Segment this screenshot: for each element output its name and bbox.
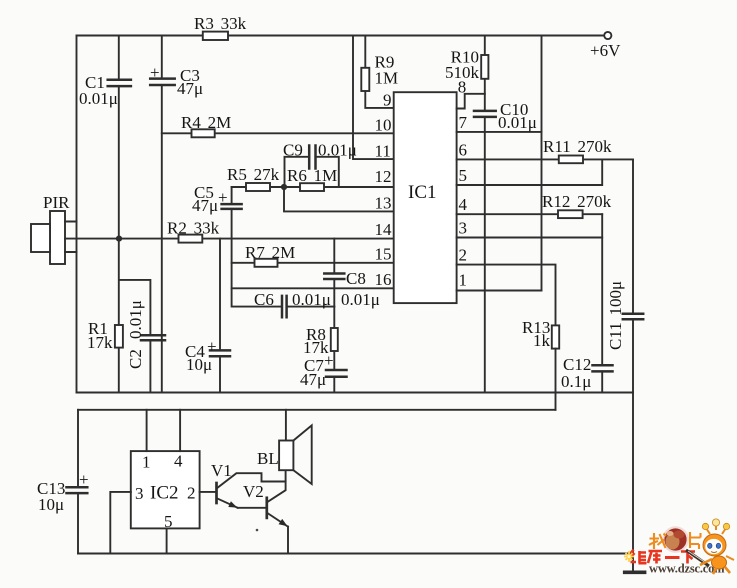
svg-text:BL: BL	[257, 449, 279, 468]
svg-text:2: 2	[459, 246, 468, 265]
wire C10 to bottom rail	[484, 117, 486, 393]
resistor R3	[203, 32, 228, 40]
svg-text:+: +	[218, 188, 228, 207]
resistor R1	[115, 325, 123, 348]
wire IC2 pin 4	[179, 410, 181, 451]
svg-text:C8: C8	[346, 269, 366, 288]
svg-text:R12 270k: R12 270k	[542, 192, 612, 211]
svg-text:R11 270k: R11 270k	[543, 137, 612, 156]
IC IC1	[394, 92, 457, 303]
svg-text:+: +	[79, 470, 89, 489]
svg-text:R6 1M: R6 1M	[287, 166, 337, 185]
wire R10 supply	[484, 36, 486, 111]
capacitor C6	[282, 296, 287, 317]
svg-text:1M: 1M	[375, 69, 399, 88]
capacitor C10	[474, 111, 496, 117]
svg-text:0.01μ: 0.01μ	[79, 89, 118, 108]
capacitor C11	[623, 314, 643, 320]
capacitor C2	[141, 335, 165, 340]
resistor R11	[559, 156, 583, 164]
svg-text:+6V: +6V	[590, 41, 621, 60]
capacitor C12	[593, 365, 613, 371]
wire IC2 pin 1	[146, 410, 148, 451]
svg-text:14: 14	[375, 220, 393, 239]
transistor V2	[267, 470, 288, 553]
wire R12 to C12	[601, 214, 603, 365]
wire C8 branch	[333, 239, 335, 307]
svg-text:47μ: 47μ	[300, 370, 326, 389]
wire pin 16	[232, 287, 394, 289]
wire C3 branch	[161, 36, 163, 393]
wire upper bottom rail	[77, 392, 634, 394]
node junction R5 R6 C9	[281, 184, 287, 190]
wire pin 8 to R10	[457, 94, 485, 109]
resistor R8	[331, 328, 338, 351]
svg-text:47μ: 47μ	[177, 79, 203, 98]
wire pin 13	[284, 187, 394, 211]
wire pin 3	[457, 237, 603, 239]
svg-text:R3 33k: R3 33k	[194, 14, 247, 33]
svg-text:5: 5	[164, 512, 173, 531]
wire pin 7	[457, 131, 542, 133]
svg-text:10μ: 10μ	[38, 495, 64, 514]
svg-text:10: 10	[375, 116, 392, 135]
svg-text:1k: 1k	[533, 331, 551, 350]
svg-text:+: +	[207, 337, 217, 356]
resistor R9	[361, 68, 369, 91]
capacitor C4	[210, 350, 230, 356]
wire R4 to pin 10	[162, 132, 394, 134]
svg-text:510k: 510k	[445, 63, 480, 82]
svg-text:4: 4	[174, 452, 183, 471]
wire audio bottom rail	[78, 553, 633, 555]
watermark mascot	[700, 519, 734, 574]
svg-text:C9: C9	[283, 141, 303, 160]
wire C11 to ground	[632, 159, 634, 571]
transistor V1	[217, 473, 286, 508]
svg-text:1: 1	[459, 271, 468, 290]
resistor R7	[255, 259, 278, 267]
svg-text:R5 27k: R5 27k	[227, 165, 280, 184]
wire pin 1	[457, 290, 542, 292]
capacitor C3	[150, 79, 175, 85]
svg-text:5: 5	[459, 166, 468, 185]
speaker BL	[279, 410, 312, 484]
svg-text:IC2: IC2	[150, 483, 179, 504]
svg-text:+: +	[150, 63, 160, 82]
wire audio top rail	[78, 409, 556, 411]
capacitor C13	[67, 487, 88, 493]
resistor R6	[300, 183, 324, 191]
capacitor C7	[326, 370, 347, 377]
svg-text:+: +	[324, 351, 334, 370]
svg-text:3: 3	[459, 219, 468, 238]
svg-text:PIR: PIR	[43, 193, 70, 212]
svg-text:7: 7	[459, 113, 468, 132]
svg-text:2: 2	[187, 484, 196, 503]
wire R6 to pin 12	[284, 186, 394, 188]
svg-text:R7 2M: R7 2M	[245, 243, 295, 262]
svg-text:R4 2M: R4 2M	[181, 113, 231, 132]
wire C2 branch	[119, 280, 150, 393]
svg-text:4: 4	[459, 195, 468, 214]
svg-text:0.01μ: 0.01μ	[292, 290, 331, 309]
node +6V terminal	[604, 32, 611, 39]
wire C1 branch	[118, 36, 120, 239]
svg-text:9: 9	[383, 91, 392, 110]
capacitor C9	[285, 146, 339, 188]
capacitor C5	[222, 204, 242, 209]
IC IC2	[131, 451, 200, 528]
svg-text:0.01μ: 0.01μ	[318, 141, 357, 160]
svg-text:IC1: IC1	[408, 182, 437, 203]
wire pin 11 branch	[353, 36, 394, 160]
wire IC2 pin 3	[110, 492, 131, 554]
ground	[625, 570, 645, 574]
svg-text:11: 11	[375, 142, 391, 161]
resistor R4	[192, 129, 215, 137]
svg-text:17k: 17k	[87, 333, 113, 352]
node speck artifact	[256, 529, 259, 532]
wire pin 2 to R13	[457, 265, 556, 326]
wire pin 6 R11	[457, 158, 633, 160]
capacitor C1	[108, 80, 131, 86]
svg-text:15: 15	[375, 245, 392, 264]
wire C6 line	[232, 239, 335, 307]
svg-text:C2: C2	[126, 349, 145, 369]
svg-text:0.01μ: 0.01μ	[126, 300, 145, 339]
wire R5 line	[232, 186, 284, 188]
svg-text:0.01μ: 0.01μ	[498, 113, 537, 132]
wire IC2 pin 5	[166, 528, 168, 553]
wire R8 C7 branch	[333, 307, 335, 393]
svg-text:3: 3	[135, 484, 144, 503]
svg-text:R2 33k: R2 33k	[167, 219, 220, 238]
resistor R13	[552, 325, 559, 348]
svg-text:13: 13	[375, 194, 392, 213]
wire R9 to pin 9	[365, 36, 393, 108]
svg-text:10μ: 10μ	[186, 355, 212, 374]
resistor R5	[246, 183, 270, 191]
capacitor C8	[324, 274, 344, 280]
wire C4 branch	[219, 239, 221, 393]
resistor R2	[179, 235, 203, 243]
PIR sensor	[31, 211, 77, 264]
svg-text:1: 1	[142, 453, 151, 472]
resistor R12	[558, 210, 583, 218]
wire pin 5	[457, 159, 603, 185]
svg-text:0.01μ: 0.01μ	[341, 290, 380, 309]
svg-text:16: 16	[375, 270, 392, 289]
svg-text:C6: C6	[254, 290, 274, 309]
wire C5 branch	[231, 187, 233, 239]
wire audio left rail	[77, 410, 79, 554]
resistor R10	[481, 55, 488, 79]
svg-text:47μ: 47μ	[192, 196, 218, 215]
wire R13 to audio rail	[555, 349, 557, 410]
svg-text:V2: V2	[243, 482, 264, 501]
wire PIR output to pin 14	[65, 238, 394, 240]
svg-text:12: 12	[375, 167, 392, 186]
wire pin 4 R12	[457, 213, 603, 215]
watermark logo	[624, 527, 725, 575]
svg-text:6: 6	[459, 141, 468, 160]
svg-text:C11 100μ: C11 100μ	[606, 281, 625, 350]
wire IC2 pin 2	[200, 491, 216, 493]
wire R1 branch	[118, 239, 120, 393]
svg-text:V1: V1	[211, 461, 232, 480]
wire R7 pin 15	[232, 262, 394, 264]
svg-text:0.1μ: 0.1μ	[561, 372, 591, 391]
wire C12 to rail	[601, 371, 603, 392]
wire +6V top rail	[77, 35, 604, 37]
node junction A	[116, 236, 122, 242]
wire left rail	[76, 36, 78, 393]
wire supply branch right	[541, 36, 543, 291]
